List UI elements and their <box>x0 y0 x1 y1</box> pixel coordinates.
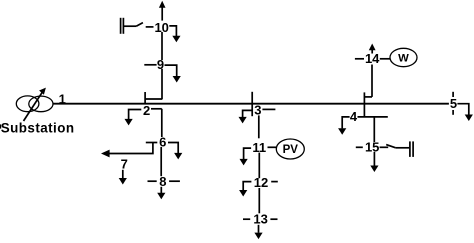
wire node 11 to node 12 <box>258 153 260 179</box>
capacitor C1 <box>121 18 124 34</box>
node 14 right stub <box>380 58 390 60</box>
svg-text:3: 3 <box>254 102 261 117</box>
node 11 right stub <box>268 146 277 148</box>
svg-text:4: 4 <box>350 109 358 124</box>
wire node 9 to node 10 <box>161 32 163 60</box>
node 15 left stub <box>356 146 363 148</box>
wire bus4 to node 14 <box>371 65 373 97</box>
svg-text:W: W <box>398 53 409 65</box>
svg-text:8: 8 <box>159 174 166 189</box>
load arrow at node 5 <box>457 104 473 121</box>
node 6 left tick <box>146 142 158 144</box>
arrowhead line 7 <box>101 150 110 158</box>
node 14 left stub <box>355 58 364 60</box>
load arrow below node 8 <box>157 187 165 200</box>
PV generator G1 <box>276 139 304 159</box>
svg-text:12: 12 <box>254 175 268 190</box>
load arrow at node 2 <box>125 110 142 126</box>
generation arrow at node 14 <box>369 44 376 54</box>
substation regulation arrow <box>24 88 46 121</box>
node 15 right stub <box>380 146 389 148</box>
wire node 6 to node 8 <box>160 147 162 176</box>
load arrow at node 12 <box>239 182 251 197</box>
label Substation <box>0 121 74 136</box>
node 10 left stub <box>146 26 154 28</box>
node 13 left stub <box>243 218 250 220</box>
node 8 right stub <box>169 180 180 182</box>
load arrow at node 6 <box>168 143 182 160</box>
svg-text:10: 10 <box>154 20 168 35</box>
load arrow at node 3 <box>239 110 252 123</box>
svg-text:6: 6 <box>159 135 166 150</box>
load arrow at node 9 <box>165 65 181 82</box>
node 5 upper tick <box>452 92 454 97</box>
node 3 right stub <box>262 108 275 110</box>
svg-text:7: 7 <box>121 156 128 171</box>
node 12 right stub <box>271 181 278 183</box>
load arrow below node 13 <box>254 225 262 239</box>
load arrow at node 7 <box>119 170 127 185</box>
node 4 right wire <box>358 116 388 118</box>
load arrow at node 11 <box>240 148 252 165</box>
wind generator W <box>390 48 417 66</box>
node 2 breaker bar <box>145 98 162 100</box>
switch blade at node 10 <box>136 23 143 27</box>
wire node 3 to node 11 <box>258 115 260 138</box>
load arrow at node 4 <box>338 117 350 135</box>
svg-text:13: 13 <box>253 212 267 227</box>
wire node2 to node 6 <box>161 109 163 137</box>
node 13 right stub <box>270 218 277 220</box>
generation arrow at node 10 <box>159 1 166 21</box>
load arrow below node 15 <box>370 152 378 172</box>
wire node 6 to node 7 <box>110 143 153 154</box>
substation transformer T1 <box>16 96 53 112</box>
node 9 left tick <box>144 64 156 66</box>
svg-text:5: 5 <box>450 96 457 111</box>
capacitor lead wire <box>124 25 136 27</box>
node 4 breaker tick <box>363 92 365 116</box>
node 4 breaker bar <box>364 96 372 98</box>
wire node 12 to node 13 <box>258 188 260 213</box>
switch blade at node 15 <box>386 145 395 148</box>
node 3 tick <box>251 92 253 116</box>
svg-text:PV: PV <box>283 144 299 156</box>
svg-text:Substation: Substation <box>1 121 75 136</box>
wire node2 right stub <box>151 108 162 110</box>
node 8 left stub <box>148 180 157 182</box>
capacitor C2 <box>410 141 413 157</box>
wire node 4 to node 15 <box>373 117 375 142</box>
node 5 lower tick <box>452 110 454 115</box>
capacitor lead wire right <box>395 147 409 149</box>
load arrow at node 10 <box>169 26 180 42</box>
svg-text:15: 15 <box>365 140 379 155</box>
main bus wire <box>53 103 449 105</box>
svg-text:2: 2 <box>143 103 150 118</box>
svg-text:9: 9 <box>157 57 164 72</box>
node 2 breaker tick <box>144 92 146 104</box>
wire bus2 to node 9 <box>161 69 163 99</box>
